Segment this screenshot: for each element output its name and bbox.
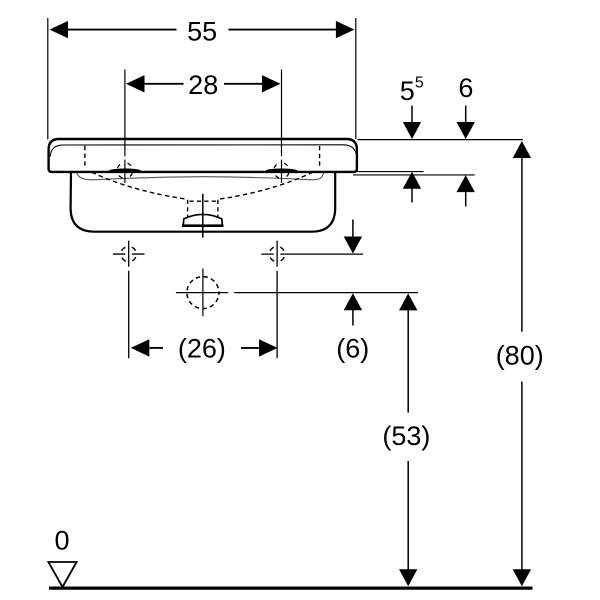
bolt hole right horizontal centerline extended to dim 6 bbox=[261, 253, 363, 255]
faucet hole right slot (ellipse) bbox=[266, 169, 298, 173]
dim 28 line bbox=[145, 83, 262, 85]
faucet hole right dashed circle bbox=[274, 163, 290, 179]
bolt hole left horizontal centerline bbox=[113, 253, 145, 255]
dim 5.5 up arrow bbox=[403, 172, 421, 189]
dim 55 line bbox=[67, 29, 337, 31]
faucet hole left slot (ellipse) bbox=[109, 169, 141, 173]
hidden drain pipe top edge (dashed) bbox=[190, 200, 217, 202]
dim (80) up arrow bbox=[513, 141, 531, 158]
dim (53) line bbox=[407, 310, 409, 570]
bowl inner front edge bbox=[77, 173, 324, 180]
floor line bbox=[49, 586, 533, 589]
drain outlet horizontal centerline bbox=[176, 292, 228, 294]
drain level line extended to dims 6 and 53 bbox=[234, 292, 418, 294]
hidden bowl right wall (dashed) bbox=[319, 146, 321, 168]
hidden drain pipe left side (dashed) bbox=[187, 200, 189, 217]
dim (80) line bbox=[521, 158, 523, 571]
bolt hole left vertical centerline / ext line for 26 bbox=[128, 241, 130, 359]
tap deck level line extended right (6) bbox=[353, 174, 475, 176]
washbasin body bbox=[71, 171, 336, 232]
dim 55 extension line left bbox=[47, 18, 49, 140]
hidden drain pipe right side (dashed) bbox=[217, 200, 219, 217]
dim 28 arrow right bbox=[262, 75, 281, 92]
svg-text:(6): (6) bbox=[336, 334, 369, 364]
svg-text:5: 5 bbox=[400, 76, 415, 106]
dim (26) line left segment bbox=[150, 347, 163, 349]
dim (26) line right segment bbox=[241, 347, 259, 349]
hidden bowl bottom left slope (dashed) bbox=[85, 169, 188, 200]
dim (26) arrow right bbox=[259, 339, 278, 356]
dim 55 arrow left bbox=[50, 21, 69, 38]
dim (6) vertical up arrow bbox=[344, 293, 362, 310]
drain trap cover base line bbox=[182, 224, 224, 227]
svg-text:6: 6 bbox=[458, 73, 473, 103]
dim 5.5 down arrow bbox=[411, 106, 413, 124]
faucet hole right centerline bbox=[281, 70, 283, 184]
dim (53) up arrow bbox=[399, 293, 417, 310]
svg-text:(26): (26) bbox=[178, 334, 226, 364]
hidden bowl bottom right slope (dashed) bbox=[218, 169, 320, 200]
hidden bowl left wall (dashed) bbox=[84, 146, 86, 168]
svg-text:5: 5 bbox=[415, 75, 424, 92]
drain trap cover dome bbox=[183, 214, 222, 224]
dim 55 arrow right bbox=[336, 21, 355, 38]
rim bottom level line extended right (5.5) bbox=[353, 171, 424, 173]
svg-text:28: 28 bbox=[188, 70, 218, 100]
faucet hole left centerline bbox=[124, 70, 126, 184]
svg-text:55: 55 bbox=[187, 16, 217, 46]
dim 55 extension line right bbox=[355, 18, 357, 139]
bolt hole left dashed circle bbox=[121, 246, 136, 261]
dim 6 down arrow bbox=[465, 106, 467, 124]
dim (80) down arrow bbox=[513, 569, 531, 586]
dim 6 up arrow bbox=[457, 175, 475, 192]
dim (6) vertical down arrow bbox=[352, 220, 354, 238]
washbasin rim (tap deck) bbox=[49, 139, 357, 172]
svg-text:(80): (80) bbox=[496, 340, 544, 370]
drain vertical centerline bbox=[202, 194, 204, 238]
drain outlet vertical centerline bbox=[202, 269, 204, 317]
dim (53) down arrow bbox=[399, 569, 417, 586]
bolt hole right dashed circle bbox=[269, 246, 284, 261]
svg-text:(53): (53) bbox=[382, 421, 430, 451]
bolt hole right vertical centerline / ext line for 26 bbox=[276, 241, 278, 359]
faucet hole left dashed circle bbox=[117, 163, 133, 179]
dim 28 arrow left bbox=[126, 75, 145, 92]
rim top level line extended right bbox=[358, 139, 524, 141]
drain outlet dashed circle bbox=[187, 277, 219, 309]
datum triangle bbox=[48, 562, 76, 587]
rim inner edge line bbox=[50, 145, 356, 157]
dim (26) arrow left bbox=[131, 339, 150, 356]
svg-text:0: 0 bbox=[54, 526, 69, 556]
